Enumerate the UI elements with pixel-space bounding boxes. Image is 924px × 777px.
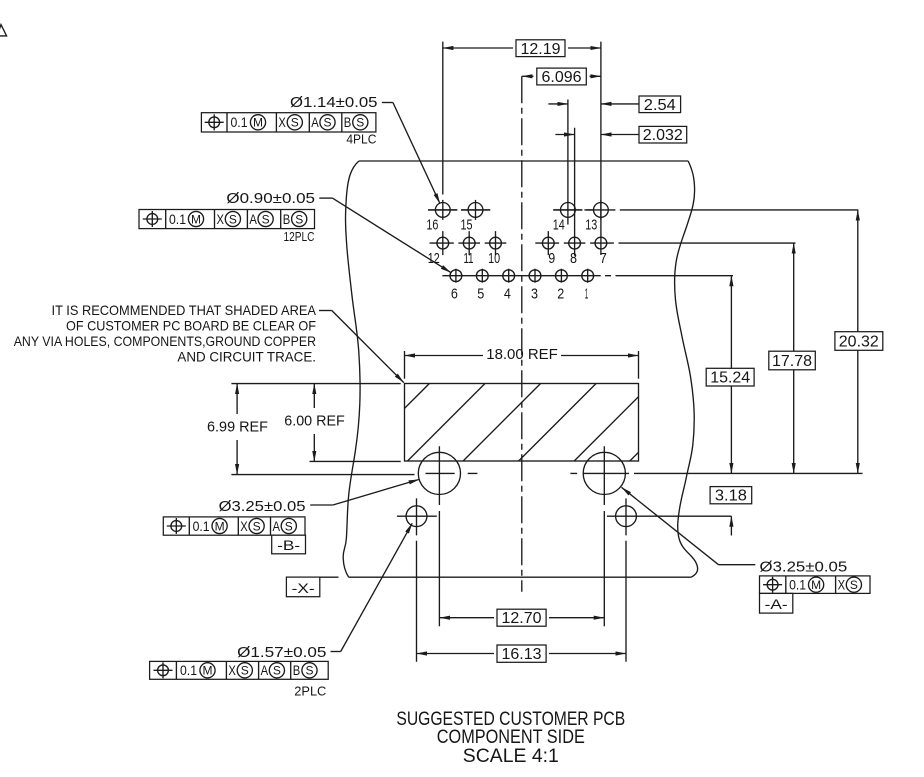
hole pin 6 — [450, 269, 462, 283]
label dia 3.25 +-0.05 right — [760, 559, 848, 576]
datum -X- extension line — [320, 576, 339, 578]
svg-text:S: S — [273, 664, 281, 678]
svg-text:12PLC: 12PLC — [284, 229, 315, 244]
svg-text:B: B — [293, 662, 301, 678]
label dia 1.57 +-0.05 — [237, 644, 326, 661]
svg-text:M: M — [215, 519, 225, 533]
svg-text:10: 10 — [488, 250, 500, 267]
dimension 15.24 — [706, 276, 754, 474]
svg-text:-B-: -B- — [277, 537, 300, 553]
svg-text:X: X — [217, 211, 225, 227]
svg-text:12.70: 12.70 — [502, 610, 542, 627]
svg-text:16: 16 — [426, 217, 438, 234]
pin number labels row 12-7 — [428, 250, 607, 267]
extension line big hole right column — [603, 446, 605, 626]
svg-text:S: S — [262, 212, 270, 226]
dimension 6.00 REF — [284, 384, 400, 462]
svg-text:-X-: -X- — [292, 580, 315, 596]
extension line pin13/7 column — [600, 42, 602, 255]
label dia 3.25 +-0.05 left — [219, 498, 306, 515]
svg-text:15: 15 — [461, 217, 473, 234]
svg-text:Ø1.57±0.05: Ø1.57±0.05 — [237, 644, 326, 661]
hole guide right 1.57 — [616, 506, 637, 527]
svg-text:S: S — [850, 578, 858, 592]
svg-text:S: S — [291, 116, 299, 130]
svg-text:3.18: 3.18 — [715, 488, 747, 505]
svg-text:4PLC: 4PLC — [346, 131, 376, 146]
svg-text:S: S — [356, 116, 364, 130]
feature control frame 2PLC — [150, 661, 329, 679]
hole pin 13 — [586, 200, 615, 220]
feature control frame 4PLC — [201, 113, 376, 132]
hole pin 11 — [458, 231, 480, 255]
note text block — [14, 302, 317, 365]
datum -B- symbol — [272, 535, 306, 554]
extension line small hole right column — [625, 498, 627, 661]
svg-text:0.1: 0.1 — [231, 114, 248, 130]
leader dia 3.25 right to big hole — [622, 487, 756, 564]
title text — [396, 709, 625, 767]
hole pin 9 — [535, 231, 559, 255]
hole mounting left 3.25 — [418, 452, 477, 494]
dimension 17.78 — [769, 243, 816, 473]
svg-text:S: S — [305, 664, 313, 678]
feature control frame datum A callout — [760, 576, 871, 594]
pin number labels row 6-1 — [451, 285, 588, 302]
dimension 12.70 — [439, 609, 604, 627]
svg-text:2.032: 2.032 — [643, 127, 683, 144]
hole pin 8 — [564, 237, 586, 249]
svg-text:X: X — [240, 518, 248, 534]
svg-text:20.32: 20.32 — [839, 334, 879, 351]
svg-text:18.00 REF: 18.00 REF — [486, 346, 558, 363]
feature control frame datum B callout — [163, 517, 305, 535]
svg-text:S: S — [253, 519, 261, 533]
dimension 12.19 — [443, 40, 601, 58]
board outline bottom edge — [349, 576, 691, 578]
svg-text:16.13: 16.13 — [502, 646, 542, 663]
svg-text:6.00 REF: 6.00 REF — [284, 413, 345, 430]
svg-text:8: 8 — [570, 250, 577, 267]
extension line pin8 column — [574, 128, 576, 256]
centerline small hole row right extending to 3.18 dimension — [607, 515, 731, 517]
dimension 6.096 — [522, 68, 601, 86]
row centerline pins 6-1 extending to 15.24 dimension — [442, 275, 733, 277]
svg-text:0.1: 0.1 — [193, 518, 210, 534]
row centerline pins 14-13 extending to 20.32 dimension — [553, 209, 858, 211]
extension line pin14 column — [567, 100, 569, 225]
svg-text:ANY VIA HOLES, COMPONENTS,GROU: ANY VIA HOLES, COMPONENTS,GROUND COPPER — [14, 333, 316, 349]
svg-text:-A-: -A- — [765, 596, 788, 612]
row centerline pins 12-10 — [0, 0, 1, 1]
label 4PLC — [346, 131, 376, 146]
baseline big hole row extending right — [634, 472, 863, 474]
label 2PLC — [294, 684, 326, 699]
feature control frame 12PLC — [139, 210, 315, 229]
leader dia 1.57 to small hole — [331, 523, 413, 651]
svg-text:5: 5 — [477, 285, 484, 302]
svg-text:0.1: 0.1 — [789, 577, 806, 593]
svg-text:M: M — [191, 212, 201, 226]
dimension 2.032 — [555, 126, 686, 144]
svg-text:Ø1.14±0.05: Ø1.14±0.05 — [290, 94, 378, 111]
svg-text:6: 6 — [451, 285, 458, 302]
note leader to shaded area — [319, 311, 404, 383]
svg-text:4: 4 — [504, 285, 511, 302]
svg-text:15.24: 15.24 — [710, 370, 750, 387]
svg-text:A: A — [273, 518, 281, 534]
hole pin 5 — [476, 269, 488, 283]
svg-text:A: A — [311, 114, 319, 130]
svg-text:3: 3 — [531, 285, 538, 302]
hole pin 7 — [590, 237, 614, 249]
row centerline pins 9-7 extending to 17.78 dimension — [619, 242, 796, 244]
hole pin 16 — [428, 200, 457, 220]
svg-text:X: X — [838, 577, 846, 593]
dimension 18.00 REF — [405, 346, 639, 379]
hole pin 10 — [485, 231, 507, 255]
dimension 2.54 — [548, 96, 680, 114]
row centerline pins 16-15 — [428, 209, 490, 211]
dimension 6.99 REF — [207, 384, 415, 475]
extension line big hole left column — [438, 446, 440, 626]
svg-text:X: X — [278, 114, 286, 130]
hole pin 4 — [503, 269, 515, 283]
svg-text:2PLC: 2PLC — [294, 684, 326, 699]
label dia 1.14 +-0.05 — [290, 94, 378, 111]
datum -A- symbol — [760, 593, 793, 613]
revision triangle marker — [0, 25, 7, 36]
svg-text:6.99 REF: 6.99 REF — [207, 419, 268, 436]
svg-text:X: X — [228, 662, 236, 678]
svg-text:14: 14 — [553, 217, 565, 234]
leader dia 0.90 to pin 6 — [319, 198, 451, 273]
svg-text:S: S — [295, 212, 303, 226]
svg-text:S: S — [241, 664, 249, 678]
label dia 0.90 +-0.05 — [226, 190, 315, 207]
svg-text:B: B — [344, 114, 352, 130]
svg-text:SCALE 4:1: SCALE 4:1 — [463, 746, 559, 767]
leader dia 1.14 to pin 16 — [382, 103, 440, 204]
svg-text:Ø3.25±0.05: Ø3.25±0.05 — [760, 559, 848, 576]
extension line pin16 column — [442, 42, 444, 195]
dimension 16.13 — [417, 645, 627, 663]
svg-text:A: A — [261, 662, 269, 678]
svg-text:M: M — [253, 116, 263, 130]
svg-text:17.78: 17.78 — [772, 353, 812, 370]
svg-text:13: 13 — [585, 217, 597, 234]
board break line left (wavy) — [343, 161, 360, 577]
svg-text:Ø3.25±0.05: Ø3.25±0.05 — [219, 498, 306, 515]
svg-text:S: S — [285, 519, 293, 533]
board break line right (wavy) — [675, 161, 698, 577]
svg-text:12.19: 12.19 — [521, 41, 561, 58]
svg-text:M: M — [203, 664, 213, 678]
pin number labels row 16-13 — [426, 217, 597, 234]
hole pin 2 — [556, 269, 568, 283]
board outline top edge — [359, 160, 688, 162]
svg-text:A: A — [249, 211, 257, 227]
hole guide left 1.57 — [397, 506, 437, 527]
dimension 3.18 — [710, 487, 752, 536]
dimension 20.32 — [835, 210, 883, 474]
leader dia 3.25 left to big hole — [310, 479, 419, 505]
svg-text:2.54: 2.54 — [644, 97, 676, 114]
svg-text:2: 2 — [557, 285, 564, 302]
svg-text:IT IS RECOMMENDED THAT SHADED: IT IS RECOMMENDED THAT SHADED AREA — [52, 302, 317, 318]
hole mounting right 3.25 — [570, 452, 629, 494]
extension line small hole left column — [416, 498, 418, 661]
svg-text:11: 11 — [464, 250, 474, 267]
vertical centerline (dash-dot) — [521, 76, 523, 592]
svg-text:M: M — [811, 578, 821, 592]
svg-text:Ø0.90±0.05: Ø0.90±0.05 — [226, 190, 315, 207]
svg-text:9: 9 — [548, 250, 555, 267]
hole pin 12 — [430, 231, 454, 255]
hole pin 15 — [461, 200, 490, 220]
svg-text:S: S — [323, 116, 331, 130]
svg-text:6.096: 6.096 — [542, 69, 582, 86]
datum -X- symbol — [286, 577, 319, 597]
svg-text:0.1: 0.1 — [169, 211, 186, 227]
hole pin 1 — [582, 269, 594, 283]
svg-text:B: B — [283, 211, 291, 227]
label 12PLC — [284, 229, 315, 244]
svg-text:AND CIRCUIT TRACE.: AND CIRCUIT TRACE. — [177, 348, 316, 364]
svg-text:S: S — [229, 212, 237, 226]
hole pin 3 — [529, 269, 541, 283]
shaded keep-out area (hatched rectangle) — [405, 384, 639, 462]
hole pin 14 — [553, 203, 582, 218]
svg-text:OF CUSTOMER PC BOARD BE CLEAR: OF CUSTOMER PC BOARD BE CLEAR OF — [66, 317, 316, 333]
svg-text:0.1: 0.1 — [180, 662, 197, 678]
svg-text:1: 1 — [585, 285, 589, 302]
